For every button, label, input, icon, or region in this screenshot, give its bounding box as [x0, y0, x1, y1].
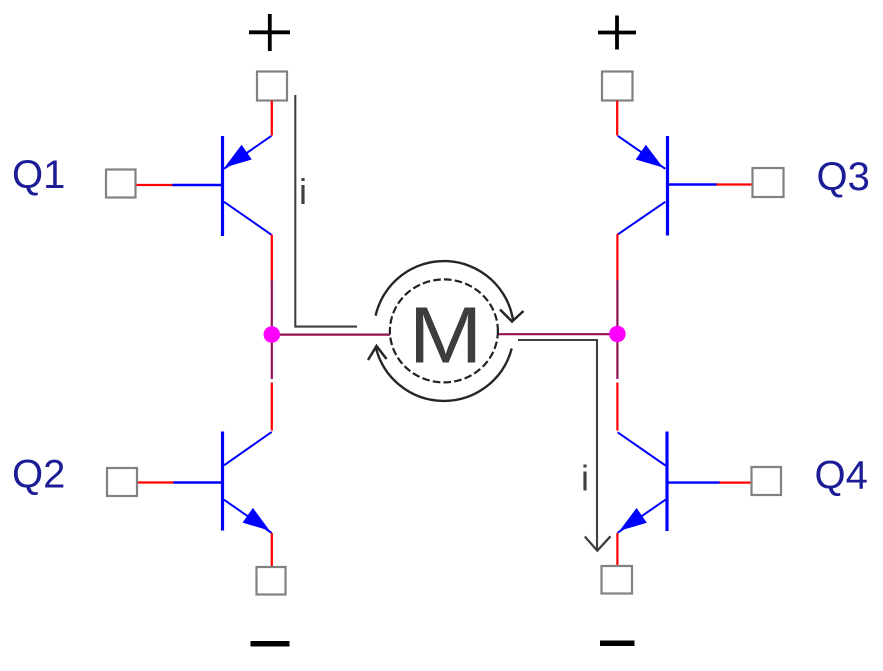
wire: Q1 collector down (red): [271, 235, 273, 282]
terminal pad (right - supply): [602, 566, 633, 594]
svg-text:Q4: Q4: [815, 454, 868, 498]
minus terminal - (left): [251, 641, 290, 647]
minus terminal - (right): [600, 641, 635, 647]
wire: P1 to Q1 emitter: [271, 101, 273, 136]
wire: Q2 emitter to pad (red): [271, 533, 273, 567]
transistor Q4 (NPN): [618, 432, 720, 533]
wire: node A to motor (dark): [272, 334, 390, 336]
terminal pad (left - supply): [257, 567, 286, 595]
wire: node A to Q2 collector (red): [271, 383, 273, 431]
rotation arrow arc (bottom, clockwise): [376, 346, 512, 401]
terminal pad (Q2 base): [107, 468, 137, 496]
terminal pad P1 (left + supply): [257, 72, 287, 101]
wire: Q4 base to pad: [720, 482, 752, 484]
plus terminal + (right supply): [598, 16, 636, 50]
junction node A: [264, 326, 281, 343]
wire: pad to Q2 base: [138, 481, 174, 483]
svg-text:i: i: [581, 458, 589, 499]
svg-text:M: M: [409, 290, 483, 379]
wire: pad to Q1 base: [136, 184, 173, 186]
motor M1 body (dashed circle): [390, 279, 498, 382]
wire: motor to node B (dark): [498, 333, 617, 335]
terminal pad (right + supply): [602, 72, 633, 101]
wire: Q3 collector down (red): [616, 234, 618, 281]
wire: highlighted segment through node A (dark): [271, 280, 273, 379]
terminal pad (Q1 base): [106, 170, 136, 198]
svg-text:Q2: Q2: [12, 453, 65, 497]
plus terminal + (left supply): [249, 14, 290, 51]
current annotation line i (left): [295, 95, 357, 327]
wire: highlighted segment through node B (dark): [616, 280, 618, 379]
svg-text:Q3: Q3: [817, 155, 870, 199]
rotation arrowhead (bottom left): [368, 346, 387, 360]
current annotation line i (right): [518, 340, 597, 549]
transistor Q1 (PNP): [172, 136, 272, 236]
wire: node B to Q4 collector (red): [616, 383, 618, 431]
arrowhead of i (right): [585, 536, 611, 550]
junction node B: [609, 326, 626, 343]
terminal pad (Q4 base): [752, 467, 782, 495]
svg-text:i: i: [299, 171, 307, 212]
wire: pad to Q3 emitter: [616, 101, 618, 136]
transistor Q2 (NPN): [173, 432, 272, 534]
wire: Q3 base to pad: [717, 183, 753, 185]
wire: Q4 emitter to pad (red): [616, 533, 618, 566]
terminal pad (Q3 base): [753, 168, 784, 197]
transistor Q3 (PNP): [618, 136, 717, 236]
rotation arrow arc (top, clockwise): [376, 261, 514, 321]
rotation arrowhead (top right): [500, 310, 524, 322]
svg-text:Q1: Q1: [12, 153, 65, 197]
